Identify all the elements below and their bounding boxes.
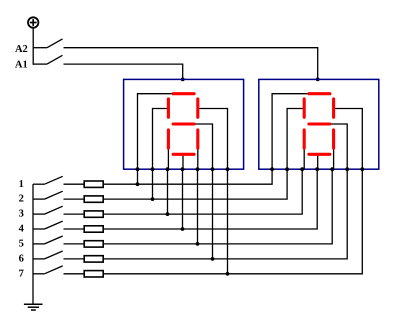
wire: DS2 pin5 to segment c: [333, 148, 335, 170]
svg-text:A1: A1: [15, 60, 28, 71]
wire: DS1 pin5 to segment c: [197, 148, 199, 170]
resistor R3: [84, 211, 103, 217]
DS1 pin 2: [151, 167, 155, 171]
DS1 pin 4: [181, 167, 185, 171]
switch 7: [33, 266, 63, 274]
wire: row 6 tap up to DS1 pin 6: [212, 169, 214, 259]
wire: row 4 tap up to DS1 pin 4: [182, 169, 184, 229]
junction: row 6 at DS1 column: [211, 257, 215, 261]
ground: [24, 304, 43, 310]
wire: DS2 pin6 to segment g: [330, 124, 347, 169]
DS1 segment g: [173, 122, 194, 125]
DS2 pin 4: [315, 167, 319, 171]
wire: resistor R6 to DS2 pin 6: [103, 169, 347, 259]
resistor R5: [84, 241, 103, 247]
DS2 segment d: [309, 153, 330, 156]
wire: resistor R5 to DS2 pin 5: [103, 169, 332, 244]
wire: switch 3 to resistor R3: [64, 213, 85, 215]
DS2 pin 1: [270, 167, 274, 171]
resistor R4: [84, 226, 103, 232]
junction: row 3 at DS1 column: [166, 212, 170, 216]
DS1 segment d: [173, 153, 194, 156]
switch 3: [33, 206, 63, 214]
DS2 segment f: [303, 99, 306, 117]
DS1 pin 3: [166, 167, 170, 171]
svg-text:6: 6: [19, 254, 24, 265]
wire: resistor R4 to DS2 pin 4: [103, 169, 317, 229]
display DS2 body: [259, 79, 379, 169]
DS1 pin 1: [136, 167, 140, 171]
DS2 segment a: [309, 92, 330, 95]
wire: switch 2 to resistor R2: [64, 198, 85, 200]
wire: switch 1 to resistor R1: [64, 183, 85, 185]
wire: resistor R1 to DS2 pin 1: [103, 169, 272, 184]
resistor R7: [84, 271, 103, 277]
wire: DS1 pin1 to segment a: [138, 94, 174, 170]
junction: row 1 at DS1 column: [136, 182, 140, 186]
wire: resistor R2 to DS2 pin 2: [103, 169, 287, 199]
junction: row 7 at DS1 column: [226, 272, 230, 276]
junction: A1 wire at DS1 top: [181, 78, 185, 82]
wire: DS2 pin2 to segment f: [287, 109, 304, 170]
DS1 pin 5: [196, 167, 200, 171]
wire: DS1 pin3 to segment e: [167, 148, 169, 170]
wire: resistor R3 to DS2 pin 3: [103, 169, 302, 214]
DS2 pin 6: [345, 167, 349, 171]
svg-text:3: 3: [19, 209, 24, 220]
junction: row 5 at DS1 column: [196, 242, 200, 246]
DS2 segment e: [303, 130, 306, 148]
wire: DS1 pin2 to segment f: [153, 109, 169, 170]
display DS1 body: [124, 79, 244, 169]
DS2 pin 5: [330, 167, 334, 171]
wire: supply vertical bus to switches A2/A1: [32, 28, 34, 65]
switch A1: [33, 55, 63, 64]
wire: row 2 tap up to DS1 pin 2: [152, 169, 154, 199]
power supply positive terminal: [28, 17, 38, 27]
junction: row 2 at DS1 column: [151, 197, 155, 201]
DS1 segment f: [167, 99, 170, 117]
DS1 pin 7: [226, 167, 230, 171]
wire: switch 6 to resistor R6: [64, 258, 85, 260]
resistor R2: [84, 196, 103, 202]
switch 1: [33, 176, 63, 184]
DS2 segment c: [332, 130, 335, 148]
wire: switch bus 1-7 to ground: [32, 184, 34, 304]
junction: A2 wire at DS2 top: [316, 78, 320, 82]
DS1 segment c: [196, 130, 199, 148]
svg-text:5: 5: [19, 239, 24, 250]
wire: DS1 pin6 to segment g: [194, 124, 212, 169]
switch 6: [33, 251, 63, 259]
DS1 pin 6: [211, 167, 215, 171]
wire: row 3 tap up to DS1 pin 3: [167, 169, 169, 214]
wire: switch 5 to resistor R5: [64, 243, 85, 245]
wire: switch A2 to display DS2 common: [64, 48, 318, 80]
wire: DS2 pin3 to segment e: [303, 148, 305, 170]
switch 4: [33, 221, 63, 229]
wire: DS2 pin7 to segment b: [334, 109, 363, 170]
wire: DS1 pin4 to segment d: [182, 154, 184, 169]
DS2 segment g: [309, 122, 330, 125]
DS2 segment b: [332, 99, 335, 117]
wire: row 7 tap up to DS1 pin 7: [227, 169, 229, 274]
wire: resistor R7 to DS2 pin 7: [103, 169, 362, 274]
switch 5: [33, 236, 63, 244]
wire: switch 7 to resistor R7: [64, 273, 85, 275]
DS2 pin 2: [285, 167, 289, 171]
wire: DS2 pin4 to segment d: [317, 154, 319, 169]
svg-text:1: 1: [19, 179, 24, 190]
resistor R1: [84, 181, 103, 187]
switch 2: [33, 191, 63, 199]
DS1 segment a: [173, 92, 194, 95]
wire: row 5 tap up to DS1 pin 5: [197, 169, 199, 244]
wire: DS2 pin1 to segment a: [272, 94, 309, 170]
junction: row 4 at DS1 column: [181, 227, 185, 231]
DS1 segment e: [167, 130, 170, 148]
wire: switch A1 to display DS1 common: [64, 64, 183, 79]
svg-text:7: 7: [19, 268, 24, 279]
svg-text:2: 2: [19, 194, 24, 205]
wire: DS1 pin7 to segment b: [198, 109, 228, 170]
DS2 pin 3: [300, 167, 304, 171]
switch A2: [33, 39, 63, 48]
svg-text:A2: A2: [15, 44, 28, 55]
wire: switch 4 to resistor R4: [64, 228, 85, 230]
DS2 pin 7: [360, 167, 364, 171]
resistor R6: [84, 256, 103, 262]
svg-text:4: 4: [19, 224, 25, 235]
DS1 segment b: [196, 99, 199, 117]
wire: row 1 tap up to DS1 pin 1: [137, 169, 139, 184]
